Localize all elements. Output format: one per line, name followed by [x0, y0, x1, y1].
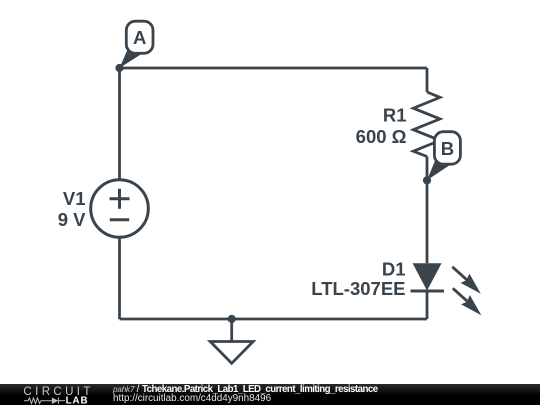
svg-text:600 Ω: 600 Ω [356, 126, 407, 147]
svg-text:R1: R1 [383, 104, 407, 125]
svg-text:A: A [133, 27, 146, 48]
svg-text:9 V: 9 V [58, 209, 86, 230]
svg-text:B: B [441, 138, 454, 159]
svg-text:V1: V1 [63, 188, 86, 209]
svg-text:LAB: LAB [66, 395, 89, 405]
svg-text:D1: D1 [382, 259, 406, 280]
svg-text:LTL-307EE: LTL-307EE [311, 278, 405, 299]
